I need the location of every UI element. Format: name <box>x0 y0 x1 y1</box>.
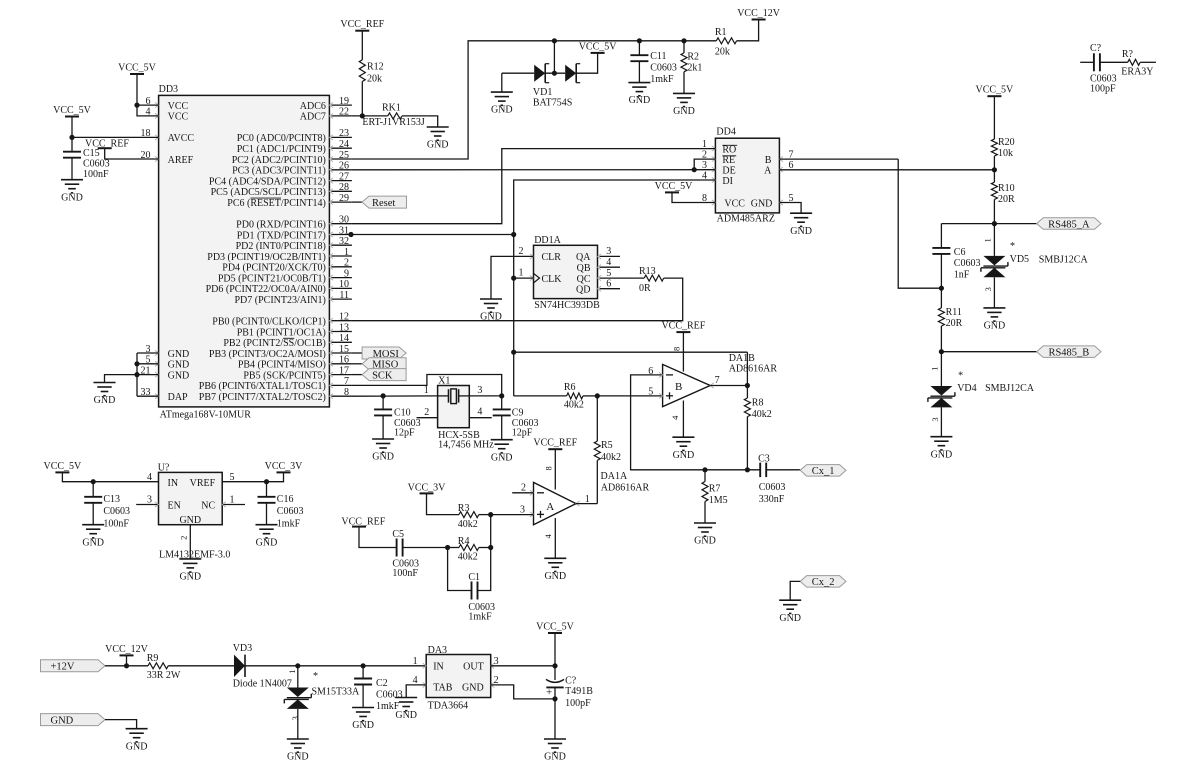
svg-text:1: 1 <box>930 367 940 371</box>
svg-text:1mkF: 1mkF <box>277 519 301 530</box>
svg-text:GND: GND <box>287 752 309 763</box>
svg-text:GND: GND <box>179 572 201 583</box>
svg-text:VCC_REF: VCC_REF <box>661 321 705 332</box>
svg-text:Reset: Reset <box>372 198 395 209</box>
svg-text:+12V: +12V <box>51 662 75 673</box>
svg-text:ERT-J1VR153J: ERT-J1VR153J <box>362 117 424 128</box>
svg-text:7: 7 <box>715 375 720 386</box>
svg-text:VCC_REF: VCC_REF <box>340 19 384 30</box>
svg-text:GND: GND <box>984 321 1006 332</box>
svg-text:R1: R1 <box>715 27 727 38</box>
svg-text:GND: GND <box>168 370 190 381</box>
svg-text:VCC_5V: VCC_5V <box>536 622 575 633</box>
svg-text:VD1: VD1 <box>533 87 552 98</box>
svg-text:3: 3 <box>930 417 940 421</box>
svg-text:GND: GND <box>673 106 695 117</box>
svg-text:C11: C11 <box>650 51 666 62</box>
svg-text:C0603: C0603 <box>277 506 304 517</box>
svg-text:U?: U? <box>158 462 170 473</box>
svg-text:14,7456 MHz: 14,7456 MHz <box>438 440 494 451</box>
svg-text:VCC: VCC <box>168 101 189 112</box>
svg-text:1: 1 <box>413 656 418 667</box>
svg-text:VD4: VD4 <box>957 383 976 394</box>
svg-text:GND: GND <box>790 226 812 237</box>
svg-text:A: A <box>546 501 554 513</box>
svg-text:VCC_5V: VCC_5V <box>44 461 83 472</box>
svg-text:B: B <box>765 155 772 166</box>
svg-text:330nF: 330nF <box>759 494 785 505</box>
svg-text:1: 1 <box>424 385 429 396</box>
svg-text:PB4 (PCINT4/MISO): PB4 (PCINT4/MISO) <box>238 360 326 371</box>
svg-text:2: 2 <box>179 536 189 540</box>
svg-text:R9: R9 <box>147 653 159 664</box>
svg-text:GND: GND <box>168 349 190 360</box>
svg-text:RO: RO <box>722 144 736 155</box>
svg-text:X1: X1 <box>438 375 450 386</box>
svg-text:IN: IN <box>168 478 179 489</box>
svg-text:100pF: 100pF <box>1090 83 1116 94</box>
svg-text:GND: GND <box>352 720 374 731</box>
svg-text:NC: NC <box>201 501 215 512</box>
svg-text:VCC: VCC <box>724 198 745 209</box>
svg-text:100nF: 100nF <box>83 169 109 180</box>
svg-text:GND: GND <box>256 537 278 548</box>
svg-text:4: 4 <box>477 406 482 417</box>
svg-text:20R: 20R <box>946 318 963 329</box>
svg-text:C16: C16 <box>277 494 294 505</box>
svg-text:6: 6 <box>648 366 653 377</box>
svg-text:VCC_5V: VCC_5V <box>976 85 1015 96</box>
svg-text:2: 2 <box>424 407 429 418</box>
svg-text:C0603: C0603 <box>954 258 981 269</box>
svg-text:PC1 (ADC1/PCINT9): PC1 (ADC1/PCINT9) <box>237 144 326 155</box>
svg-text:C0603: C0603 <box>650 63 677 74</box>
svg-text:R7: R7 <box>709 484 721 495</box>
svg-text:C2: C2 <box>376 678 388 689</box>
svg-text:VCC_5V: VCC_5V <box>579 41 618 52</box>
svg-text:PC3 (ADC3/PCINT11): PC3 (ADC3/PCINT11) <box>232 166 326 177</box>
svg-text:GND: GND <box>673 450 695 461</box>
svg-text:100pF: 100pF <box>565 698 591 709</box>
svg-text:B: B <box>675 381 682 393</box>
svg-text:RE: RE <box>722 155 735 166</box>
svg-text:GND: GND <box>427 140 449 151</box>
svg-text:GND: GND <box>779 613 801 624</box>
svg-text:10k: 10k <box>998 148 1013 159</box>
svg-text:CLR: CLR <box>542 252 562 263</box>
svg-text:C?: C? <box>1090 43 1102 54</box>
svg-text:C9: C9 <box>512 408 524 419</box>
svg-text:GND: GND <box>751 198 773 209</box>
svg-text:Cx_1: Cx_1 <box>812 466 835 477</box>
svg-text:R8: R8 <box>752 398 764 409</box>
svg-text:VCC_12V: VCC_12V <box>737 8 781 19</box>
svg-text:PB6 (PCINT6/XTAL1/TOSC1): PB6 (PCINT6/XTAL1/TOSC1) <box>199 381 326 392</box>
svg-text:ERA3Y: ERA3Y <box>1121 67 1153 78</box>
svg-text:40k2: 40k2 <box>564 400 584 411</box>
svg-text:R4: R4 <box>458 536 470 547</box>
svg-text:8: 8 <box>543 466 553 470</box>
svg-text:1: 1 <box>519 268 524 279</box>
svg-text:2k1: 2k1 <box>687 63 702 74</box>
svg-text:GND: GND <box>629 95 651 106</box>
svg-text:AREF: AREF <box>168 155 194 166</box>
svg-text:PC6 (RESET/PCINT14): PC6 (RESET/PCINT14) <box>227 198 326 209</box>
svg-text:*: * <box>958 371 963 382</box>
svg-text:SN74HC393DB: SN74HC393DB <box>534 300 600 311</box>
svg-text:DD1A: DD1A <box>534 235 561 246</box>
svg-text:PD5 (PCINT21/OC0B/T1): PD5 (PCINT21/OC0B/T1) <box>218 273 326 284</box>
svg-text:QA: QA <box>576 252 591 263</box>
svg-text:EN: EN <box>168 501 181 512</box>
svg-text:2: 2 <box>519 246 524 257</box>
svg-text:40k2: 40k2 <box>601 452 621 463</box>
svg-text:1M5: 1M5 <box>709 495 728 506</box>
svg-text:PD6 (PCINT22/OC0A/AIN0): PD6 (PCINT22/OC0A/AIN0) <box>206 284 326 295</box>
svg-text:PC5 (ADC5/SCL/PCINT13): PC5 (ADC5/SCL/PCINT13) <box>211 187 326 198</box>
svg-text:GND: GND <box>179 515 201 526</box>
svg-text:VCC_12V: VCC_12V <box>105 644 149 655</box>
svg-text:DD3: DD3 <box>159 84 178 95</box>
svg-text:PD7 (PCINT23/AIN1): PD7 (PCINT23/AIN1) <box>235 295 326 306</box>
svg-text:R20: R20 <box>998 137 1015 148</box>
svg-text:VCC: VCC <box>168 112 189 123</box>
svg-text:GND: GND <box>544 752 566 763</box>
svg-text:GND: GND <box>168 360 190 371</box>
svg-text:PB3 (PCINT3/OC2A/MOSI): PB3 (PCINT3/OC2A/MOSI) <box>209 349 326 360</box>
svg-text:C0603: C0603 <box>83 159 110 170</box>
svg-text:ADC7: ADC7 <box>300 112 326 123</box>
svg-text:PB1 (PCINT1/OC1A): PB1 (PCINT1/OC1A) <box>237 327 326 338</box>
svg-text:C15: C15 <box>83 148 100 159</box>
svg-text:GND: GND <box>462 683 484 694</box>
svg-text:AD8616AR: AD8616AR <box>601 483 650 494</box>
svg-text:IN: IN <box>433 662 444 673</box>
svg-text:RS485_B: RS485_B <box>1048 348 1089 359</box>
svg-text:GND: GND <box>491 452 513 463</box>
svg-text:R11: R11 <box>946 307 962 318</box>
svg-text:PD2 (INT0/PCINT18): PD2 (INT0/PCINT18) <box>236 241 326 252</box>
svg-text:C13: C13 <box>103 494 120 505</box>
svg-text:*: * <box>1010 241 1015 252</box>
svg-text:DAP: DAP <box>168 392 188 403</box>
svg-text:1nF: 1nF <box>954 270 970 281</box>
svg-text:RK1: RK1 <box>382 103 401 114</box>
svg-text:GND: GND <box>94 395 116 406</box>
svg-text:DA1A: DA1A <box>601 471 628 482</box>
svg-text:100nF: 100nF <box>103 519 129 530</box>
svg-text:ATmega168V-10MUR: ATmega168V-10MUR <box>160 410 252 421</box>
svg-text:GND: GND <box>491 105 513 116</box>
svg-text:GND: GND <box>372 452 394 463</box>
svg-text:PD1 (TXD/PCINT17): PD1 (TXD/PCINT17) <box>237 230 326 241</box>
svg-text:ADC6: ADC6 <box>300 101 326 112</box>
svg-text:1: 1 <box>585 494 590 505</box>
svg-text:DD4: DD4 <box>716 127 735 138</box>
svg-text:20k: 20k <box>715 46 730 57</box>
svg-text:C?: C? <box>565 676 577 687</box>
svg-text:ADM485ARZ: ADM485ARZ <box>717 213 775 224</box>
svg-text:5: 5 <box>606 268 611 279</box>
svg-text:1: 1 <box>983 238 993 242</box>
svg-text:TAB: TAB <box>433 683 453 694</box>
svg-text:VREF: VREF <box>190 478 216 489</box>
svg-text:40k2: 40k2 <box>458 552 478 563</box>
svg-text:VD5: VD5 <box>1010 254 1029 265</box>
svg-text:SCK: SCK <box>372 370 393 381</box>
svg-text:LM4132EMF-3.0: LM4132EMF-3.0 <box>159 550 230 561</box>
svg-text:20k: 20k <box>367 74 382 85</box>
svg-text:VCC_REF: VCC_REF <box>533 438 577 449</box>
svg-text:3: 3 <box>477 385 482 396</box>
svg-text:QD: QD <box>576 285 590 296</box>
svg-text:3: 3 <box>983 287 993 291</box>
svg-text:C10: C10 <box>394 408 411 419</box>
svg-text:GND: GND <box>931 449 953 460</box>
svg-text:OUT: OUT <box>463 662 484 673</box>
svg-text:VCC_3V: VCC_3V <box>265 461 304 472</box>
svg-text:C0603: C0603 <box>103 506 130 517</box>
svg-text:PC4 (ADC4/SDA/PCINT12): PC4 (ADC4/SDA/PCINT12) <box>209 176 326 187</box>
svg-text:DE: DE <box>722 165 735 176</box>
svg-text:8: 8 <box>672 347 682 351</box>
svg-text:C6: C6 <box>954 247 966 258</box>
svg-text:VCC_5V: VCC_5V <box>655 181 694 192</box>
svg-text:BAT754S: BAT754S <box>533 98 572 109</box>
svg-text:AD8616AR: AD8616AR <box>729 364 778 375</box>
svg-text:PD3 (PCINT19/OC2B/INT1): PD3 (PCINT19/OC2B/INT1) <box>207 252 326 263</box>
svg-text:C5: C5 <box>392 529 404 540</box>
svg-text:SM15T33A: SM15T33A <box>312 687 361 698</box>
svg-text:RS485_A: RS485_A <box>1048 219 1090 230</box>
svg-text:QB: QB <box>577 263 591 274</box>
svg-text:GND: GND <box>51 715 74 726</box>
svg-text:0R: 0R <box>639 283 651 294</box>
svg-text:DA1B: DA1B <box>729 353 755 364</box>
svg-text:GND: GND <box>395 710 417 721</box>
svg-text:100nF: 100nF <box>392 568 418 579</box>
svg-text:GND: GND <box>126 741 148 752</box>
svg-text:R3: R3 <box>458 503 470 514</box>
svg-text:PC0 (ADC0/PCINT8): PC0 (ADC0/PCINT8) <box>237 133 326 144</box>
svg-text:40k2: 40k2 <box>752 409 772 420</box>
svg-text:1: 1 <box>287 670 297 674</box>
svg-text:GND: GND <box>82 537 104 548</box>
svg-text:VCC_5V: VCC_5V <box>118 63 157 74</box>
svg-text:PD0 (RXD/PCINT16): PD0 (RXD/PCINT16) <box>236 220 326 231</box>
svg-text:PB5 (SCK/PCINT5): PB5 (SCK/PCINT5) <box>243 370 326 381</box>
svg-text:R12: R12 <box>367 61 384 72</box>
svg-text:R10: R10 <box>998 183 1015 194</box>
svg-text:3: 3 <box>606 246 611 257</box>
svg-text:VCC_3V: VCC_3V <box>408 482 447 493</box>
svg-text:1mkF: 1mkF <box>650 74 674 85</box>
svg-text:T491B: T491B <box>565 686 593 697</box>
svg-text:Diode 1N4007: Diode 1N4007 <box>233 678 292 689</box>
svg-text:TDA3664: TDA3664 <box>428 700 469 711</box>
svg-text:R13: R13 <box>639 266 656 277</box>
svg-text:PC2 (ADC2/PCINT10): PC2 (ADC2/PCINT10) <box>232 155 326 166</box>
svg-text:40k2: 40k2 <box>458 519 478 530</box>
svg-text:VCC_5V: VCC_5V <box>53 105 92 116</box>
svg-text:5: 5 <box>648 387 653 398</box>
svg-text:Cx_2: Cx_2 <box>812 577 835 588</box>
svg-text:DI: DI <box>722 176 733 187</box>
svg-text:12pF: 12pF <box>394 428 415 439</box>
svg-text:R2: R2 <box>687 52 699 63</box>
svg-text:DA3: DA3 <box>428 645 447 656</box>
svg-text:+: + <box>546 687 552 699</box>
svg-text:CLK: CLK <box>542 274 563 285</box>
svg-text:AVCC: AVCC <box>168 133 195 144</box>
svg-text:PB7 (PCINT7/XTAL2/TOSC2): PB7 (PCINT7/XTAL2/TOSC2) <box>199 392 326 403</box>
svg-text:C1: C1 <box>468 572 480 583</box>
svg-text:C0603: C0603 <box>759 482 786 493</box>
svg-text:C0603: C0603 <box>376 690 403 701</box>
svg-text:VD3: VD3 <box>233 643 252 654</box>
svg-text:R?: R? <box>1122 49 1134 60</box>
svg-text:QC: QC <box>577 274 591 285</box>
svg-text:6: 6 <box>606 279 611 290</box>
svg-text:GND: GND <box>544 571 566 582</box>
svg-text:GND: GND <box>694 536 716 547</box>
svg-text:A: A <box>764 165 772 176</box>
svg-text:SMBJ12CA: SMBJ12CA <box>1039 254 1089 265</box>
svg-text:R5: R5 <box>601 440 613 451</box>
svg-text:2: 2 <box>521 483 526 494</box>
svg-text:20R: 20R <box>998 194 1015 205</box>
svg-text:R6: R6 <box>564 382 576 393</box>
svg-text:PD4 (PCINT20/XCK/T0): PD4 (PCINT20/XCK/T0) <box>222 263 326 274</box>
svg-text:PB2 (PCINT2/SS/OC1B): PB2 (PCINT2/SS/OC1B) <box>223 338 326 349</box>
svg-text:4: 4 <box>606 257 611 268</box>
svg-text:1mkF: 1mkF <box>468 611 492 622</box>
svg-text:GND: GND <box>61 192 83 203</box>
svg-text:12pF: 12pF <box>512 428 533 439</box>
svg-text:4: 4 <box>147 472 152 483</box>
svg-text:SMBJ12CA: SMBJ12CA <box>985 383 1035 394</box>
svg-text:*: * <box>313 671 318 682</box>
svg-text:33R 2W: 33R 2W <box>147 670 181 681</box>
svg-text:3: 3 <box>290 716 300 720</box>
svg-text:PB0 (PCINT0/CLKO/ICP1): PB0 (PCINT0/CLKO/ICP1) <box>212 317 326 328</box>
svg-text:C3: C3 <box>758 454 770 465</box>
